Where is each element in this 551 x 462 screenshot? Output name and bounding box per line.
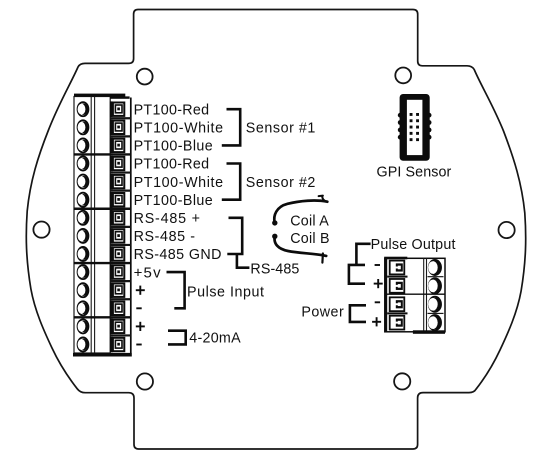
TB1 screw terminal 10 (+5v)	[78, 265, 89, 279]
TB1 wire clamp 14 (4-20mA -)	[110, 337, 124, 353]
TB2 wire clamp 2 (pulse +)	[390, 279, 405, 293]
Coil B arrow tip	[321, 254, 324, 263]
label power -	[375, 301, 380, 303]
svg-text:Coil B: Coil B	[290, 231, 330, 247]
TB2 bottom cap bar	[413, 330, 445, 334]
svg-text:PT100-Blue: PT100-Blue	[134, 139, 214, 155]
terminal block TB2 body	[384, 257, 445, 332]
Coil A arrow tip	[319, 196, 328, 202]
mounting hole bottom-right	[394, 373, 410, 389]
TB2 screw terminal 3 (power -)	[428, 297, 441, 312]
RS-485 bracket	[227, 218, 242, 254]
label pulse -	[375, 264, 380, 266]
Coil A leader wire	[274, 201, 327, 223]
label row 11: +	[136, 289, 145, 291]
svg-text:RS-485 -: RS-485 -	[134, 229, 196, 245]
4-20mA bracket	[168, 331, 186, 345]
TB1 screw terminal 12 (Pulse -)	[78, 301, 89, 315]
TB1 wire clamp 8 (RS-485 -)	[110, 228, 124, 244]
TB1 wire clamp 6 (PT100-Blue S2)	[110, 192, 124, 208]
Pulse Input bracket	[167, 272, 185, 308]
TB1 screw terminal 9 (RS-485 GND)	[78, 247, 89, 261]
svg-text:Power: Power	[301, 304, 344, 320]
TB1 screw terminal 7 (RS-485 +)	[78, 211, 89, 225]
TB1 wire clamp 3 (PT100-Blue S1)	[110, 138, 124, 154]
mounting hole top-left	[137, 69, 153, 85]
TB1 clamp column frame	[110, 98, 131, 354]
TB1 screw terminal 1 (PT100-Red S1)	[78, 102, 89, 116]
TB1 wire clamp 9 (RS-485 GND)	[110, 246, 124, 262]
svg-text:GPI Sensor: GPI Sensor	[377, 165, 452, 181]
terminal strip TB1 body	[74, 97, 110, 354]
TB1 screw terminal 11 (Pulse +)	[78, 283, 89, 297]
TB1 wire clamp 5 (PT100-White S2)	[110, 174, 124, 190]
svg-text:RS-485 +: RS-485 +	[134, 211, 201, 227]
svg-text:PT100-Red: PT100-Red	[134, 157, 210, 173]
TB1 wire clamp 7 (RS-485 +)	[110, 210, 124, 226]
mounting hole bottom-left	[137, 373, 153, 389]
Coil B node dot	[272, 234, 277, 239]
TB1 group separator 2	[74, 208, 132, 210]
TB1 screw terminal 14 (4-20mA -)	[78, 338, 89, 352]
svg-text:Sensor #2: Sensor #2	[246, 175, 316, 191]
TB1 screw terminal 8 (RS-485 -)	[78, 229, 89, 243]
Sensor #1 bracket	[222, 109, 240, 145]
svg-text:4-20mA: 4-20mA	[189, 331, 241, 347]
TB2 wire clamp 3 (power -)	[390, 297, 405, 311]
Pulse Output bracket	[349, 265, 365, 284]
Pulse Output label leader	[356, 244, 370, 265]
TB1 wire clamp 12 (Pulse -)	[110, 301, 124, 317]
svg-text:+5v: +5v	[134, 264, 162, 281]
TB1 wire clamp 4 (PT100-Red S2)	[110, 156, 124, 172]
svg-text:Pulse Output: Pulse Output	[371, 237, 456, 253]
TB1 top cap bar	[74, 94, 125, 97]
TB1 screw terminal 3 (PT100-Blue S1)	[78, 138, 89, 152]
svg-text:RS-485 GND: RS-485 GND	[134, 247, 222, 263]
TB1 screw terminal 6 (PT100-Blue S2)	[78, 193, 89, 207]
TB1 bottom cap bar	[73, 353, 132, 357]
TB1 wire clamp 13 (4-20mA +)	[110, 319, 124, 335]
Power bracket	[350, 305, 366, 322]
TB1 clamp column top bar	[110, 96, 130, 98]
svg-text:PT100-White: PT100-White	[134, 121, 224, 137]
TB1 wire clamp 11 (Pulse +)	[110, 282, 124, 298]
TB1 group separator 1	[74, 153, 132, 155]
TB2 screw terminal 4 (power +)	[428, 315, 441, 330]
label pulse +	[374, 283, 383, 285]
TB1 group separator 4	[74, 316, 132, 318]
TB1 screw terminal 4 (PT100-Red S2)	[78, 157, 89, 171]
Coil B leader wire	[275, 236, 327, 256]
TB1 group separator 3	[74, 262, 132, 264]
TB2 screw terminal 1 (pulse -)	[428, 260, 441, 275]
TB2 wire clamp 4 (power +)	[390, 316, 405, 330]
Sensor #2 bracket	[222, 164, 240, 200]
label power +	[372, 321, 381, 323]
svg-text:Sensor #1: Sensor #1	[246, 121, 316, 137]
TB1 screw terminal 2 (PT100-White S1)	[78, 120, 89, 134]
TB2 screw terminal 2 (pulse +)	[428, 278, 441, 293]
svg-text:RS-485: RS-485	[250, 261, 299, 277]
TB1 wire clamp 2 (PT100-White S1)	[110, 120, 124, 136]
svg-text:PT100-Blue: PT100-Blue	[134, 193, 214, 209]
GPI connector pins	[410, 113, 419, 141]
mounting hole left	[33, 222, 49, 238]
mounting hole top-right	[395, 68, 411, 84]
label row 13: +	[136, 325, 145, 327]
TB1 screw terminal 5 (PT100-White S2)	[78, 175, 89, 189]
label row 12: -	[136, 307, 141, 309]
svg-text:Coil A: Coil A	[290, 213, 329, 229]
svg-text:PT100-White: PT100-White	[134, 175, 224, 191]
TB1 wire clamp 10 (+5v)	[110, 264, 124, 280]
TB1 screw terminal 13 (4-20mA +)	[78, 319, 89, 333]
mounting hole right	[499, 222, 515, 238]
svg-text:Pulse Input: Pulse Input	[187, 284, 265, 300]
GPI sensor connector J1	[398, 94, 432, 161]
TB2 wire clamp 1 (pulse -)	[390, 261, 405, 275]
RS-485 drop leader	[237, 254, 250, 268]
Coil A node dot	[272, 220, 277, 225]
label row 14: -	[136, 344, 141, 346]
TB1 wire clamp 1 (PT100-Red S1)	[110, 101, 124, 117]
svg-text:PT100-Red: PT100-Red	[134, 102, 210, 118]
